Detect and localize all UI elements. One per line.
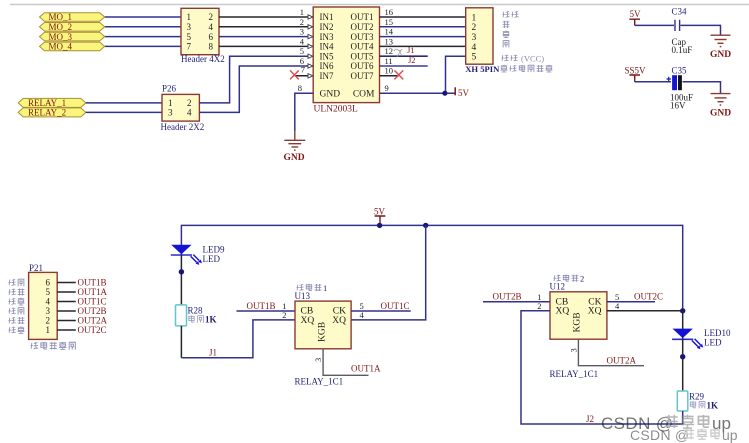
svg-text:LED10: LED10: [704, 328, 731, 338]
svg-text:RELAY_1: RELAY_1: [28, 98, 66, 108]
svg-text:XH 5PIN: XH 5PIN: [465, 64, 500, 74]
svg-text:4: 4: [300, 36, 305, 46]
port RELAY_2: [18, 108, 86, 118]
svg-text:R29: R29: [689, 391, 705, 401]
wire U12 pin4 to LED10: [607, 310, 683, 312]
svg-text:9: 9: [385, 83, 389, 93]
wire MO_1 to header P? pin1: [105, 16, 181, 18]
P21 pin stubs: [57, 283, 76, 331]
wire header pin4 to IN2: [219, 26, 313, 28]
svg-text:1: 1: [168, 98, 173, 108]
wire OUT7 stub: [380, 75, 399, 77]
svg-text:2: 2: [537, 301, 541, 311]
svg-text:12: 12: [385, 46, 394, 56]
svg-text:2: 2: [300, 17, 304, 27]
svg-text:ULN2003L: ULN2003L: [314, 105, 359, 115]
svg-text:4: 4: [472, 43, 477, 53]
svg-text:16V: 16V: [670, 101, 686, 111]
svg-text:up: up: [722, 427, 738, 443]
wire riser XH pin5 to COM net: [446, 56, 466, 93]
svg-text:XQ: XQ: [301, 316, 315, 326]
wire RELAY_1 to P26 pin1: [86, 102, 162, 104]
svg-text:1K: 1K: [205, 315, 217, 325]
wire header pin2 to IN1: [219, 16, 313, 18]
ground GND (C34): [710, 35, 731, 60]
svg-text:LED: LED: [704, 338, 722, 348]
wire OUT4 to XH pin4: [380, 45, 466, 47]
wire P26 pin2 up to IN5: [199, 56, 313, 103]
connector XH 5PIN body: [466, 8, 493, 64]
svg-text:OUT5: OUT5: [351, 51, 374, 61]
junction COM/5V: [442, 91, 447, 96]
wire MO_4: [105, 45, 181, 47]
svg-text:10: 10: [385, 66, 394, 76]
annotation pink hanzi: [503, 21, 510, 28]
svg-text:5V: 5V: [630, 9, 642, 19]
wire OUT5 stub J1: [380, 55, 428, 57]
no-ERC cross on IN7: [290, 70, 299, 79]
svg-text:OUT1C: OUT1C: [381, 301, 410, 311]
watermark CSDN line2: [630, 427, 738, 443]
wire GND pin8: [295, 93, 313, 131]
resistor R28: [176, 305, 204, 326]
U12 pin3 stub: [578, 339, 644, 366]
svg-text:6: 6: [209, 32, 214, 42]
svg-text:MO_3: MO_3: [49, 32, 73, 42]
svg-text:OUT1B: OUT1B: [78, 278, 107, 288]
svg-text:OUT2C: OUT2C: [634, 292, 663, 302]
svg-text:IN3: IN3: [320, 32, 334, 42]
port RELAY_1: [18, 98, 86, 108]
svg-text:GND: GND: [710, 108, 731, 118]
svg-text:4: 4: [209, 22, 214, 32]
svg-text:KGB: KGB: [573, 312, 583, 332]
wire OUT6 stub J2: [380, 65, 428, 67]
svg-text:IN4: IN4: [320, 42, 334, 52]
svg-text:J1: J1: [407, 45, 415, 55]
junction below LED10: [680, 354, 685, 359]
svg-text:7: 7: [187, 42, 192, 52]
svg-text:OUT2C: OUT2C: [78, 325, 107, 335]
IC U? ULN2003L body: [313, 7, 379, 103]
LED LED9: [171, 245, 202, 265]
connector P26 body: [162, 94, 199, 121]
svg-text:7: 7: [301, 65, 305, 75]
svg-text:LED9: LED9: [203, 244, 225, 254]
wire RELAY_2 to P26 pin3: [86, 111, 162, 113]
svg-text:3: 3: [472, 33, 477, 43]
power bar SS5V: [625, 65, 647, 81]
svg-text:OUT2A: OUT2A: [78, 316, 108, 326]
svg-text:IN5: IN5: [320, 51, 334, 61]
annotation yellow hanzi: [502, 30, 509, 37]
svg-text:XQ: XQ: [332, 316, 346, 326]
wire OUT1 to XH pin1: [380, 16, 466, 18]
svg-text:OUT2: OUT2: [351, 22, 374, 32]
svg-text:4: 4: [46, 297, 51, 307]
R28 value hanzi 1K: [189, 315, 217, 325]
svg-text:OUT2B: OUT2B: [78, 306, 107, 316]
U13 pin3 stub: [323, 349, 368, 376]
wire OUT2 to XH pin2: [380, 26, 466, 28]
svg-text:1: 1: [46, 325, 51, 335]
wire U12 pin5 OUT2C: [607, 301, 655, 303]
resistor R29: [677, 391, 704, 411]
svg-text:3: 3: [187, 22, 192, 32]
wire P26 pin4 up to IN6: [199, 66, 313, 112]
svg-text:2: 2: [282, 310, 286, 320]
LED LED10: [672, 311, 703, 349]
svg-text:OUT1B: OUT1B: [247, 301, 276, 311]
svg-text:OUT1C: OUT1C: [78, 297, 107, 307]
svg-text:3: 3: [313, 358, 323, 362]
svg-text:1: 1: [323, 283, 327, 293]
junction U12 pin4: [680, 308, 685, 313]
svg-text:2: 2: [580, 274, 584, 284]
svg-text:MO_2: MO_2: [49, 22, 73, 32]
svg-text:2: 2: [472, 23, 477, 33]
svg-text:IN1: IN1: [320, 12, 334, 22]
svg-text:1: 1: [187, 12, 192, 22]
annotation red-wire (VCC): [501, 54, 544, 64]
wire MO_3: [105, 36, 181, 38]
wire OUT1B to U13 pin1: [237, 310, 296, 312]
svg-text:OUT1A: OUT1A: [351, 363, 381, 373]
svg-text:KGB: KGB: [318, 322, 328, 342]
svg-text:P21: P21: [29, 263, 43, 273]
svg-text:P26: P26: [162, 84, 177, 94]
wire COM to 5V: [380, 92, 455, 94]
no-ERC cross on OUT7: [394, 70, 403, 79]
junction 5V stem: [377, 223, 382, 228]
svg-text:1: 1: [300, 7, 304, 17]
svg-text:MO_4: MO_4: [49, 42, 73, 52]
svg-text:1: 1: [472, 13, 477, 23]
svg-text:2: 2: [209, 12, 214, 22]
svg-text:Header 4X2: Header 4X2: [181, 54, 225, 64]
power bar 5V (right of ULN): [455, 87, 469, 98]
port MO_1: [40, 12, 105, 22]
svg-text:RELAY_2: RELAY_2: [28, 108, 66, 118]
gray squiggle annotation: [394, 49, 402, 57]
capacitor C35 polarized: [667, 65, 694, 110]
svg-text:6: 6: [46, 278, 51, 288]
svg-text:5: 5: [46, 287, 51, 297]
svg-text:2: 2: [187, 98, 192, 108]
svg-text:COM: COM: [353, 90, 375, 100]
svg-text:OUT4: OUT4: [351, 42, 374, 52]
power bar 5V (rail): [374, 206, 386, 225]
svg-text:8: 8: [298, 83, 302, 93]
annotation blue-wire hanzi: [502, 11, 518, 17]
port MO_4: [40, 42, 105, 52]
junction U13 riser: [423, 223, 428, 228]
svg-text:GND: GND: [710, 50, 731, 60]
svg-text:4: 4: [187, 108, 192, 118]
svg-text:J2: J2: [408, 55, 416, 65]
svg-text:11: 11: [385, 56, 393, 66]
svg-text:J1: J1: [209, 347, 217, 357]
wire MO_2: [105, 26, 181, 28]
header 4X2 body: [181, 8, 219, 54]
svg-text:IN6: IN6: [320, 61, 334, 71]
ULN2003L pin numbers left: [298, 7, 305, 93]
watermark CSDN line1: [601, 414, 731, 433]
relay2 hanzi designator: [553, 274, 584, 284]
relay1 hanzi designator: [296, 283, 327, 293]
wire R29 to J2 run to U12 pin2: [521, 311, 683, 424]
R29 value hanzi 1K: [690, 400, 718, 410]
svg-text:5: 5: [300, 46, 304, 56]
svg-text:IN2: IN2: [320, 22, 334, 32]
wire U13 pin4 riser: [351, 225, 426, 320]
wire R28 to J1 run: [180, 326, 182, 358]
svg-text:J2: J2: [586, 414, 594, 424]
svg-text:3: 3: [568, 348, 578, 352]
svg-text:(VCC): (VCC): [521, 54, 544, 64]
connector P21 body: [29, 272, 58, 339]
svg-text:RELAY_1C1: RELAY_1C1: [550, 369, 599, 379]
svg-text:OUT2B: OUT2B: [493, 292, 522, 302]
svg-text:LED: LED: [203, 254, 221, 264]
svg-text:CSDN @: CSDN @: [630, 427, 690, 443]
ground GND (C35): [710, 94, 731, 119]
svg-text:OUT3: OUT3: [351, 32, 374, 42]
ULN2003L input arrow marks: [308, 15, 313, 78]
svg-text:Header 2X2: Header 2X2: [161, 122, 205, 132]
svg-text:OUT1A: OUT1A: [78, 287, 108, 297]
svg-text:IN7: IN7: [320, 71, 334, 81]
ULN2003L pin numbers right: [385, 7, 394, 93]
wire OUT3 to XH pin3: [380, 36, 466, 38]
annotation NC/coil hanzi rows: [8, 279, 24, 333]
capacitor C34: [672, 7, 693, 55]
svg-text:SS5V: SS5V: [625, 65, 647, 75]
svg-text:U12: U12: [550, 282, 566, 292]
svg-text:5: 5: [187, 32, 192, 42]
svg-text:13: 13: [385, 36, 394, 46]
annotation relay-output hanzi: [31, 342, 76, 350]
wire header pin6 to IN3: [219, 36, 313, 38]
ground GND (under ULN): [284, 131, 306, 163]
junction below LED9: [179, 269, 184, 274]
wire 5V rail: [181, 225, 682, 310]
relay U13 body: [295, 301, 351, 349]
sheet border top line: [10, 4, 749, 6]
svg-text:RELAY_1C1: RELAY_1C1: [295, 376, 344, 386]
port MO_2: [40, 22, 105, 32]
svg-text:MO_1: MO_1: [49, 12, 73, 22]
power bar 5V (top right C34): [629, 9, 641, 25]
svg-text:XQ: XQ: [588, 307, 602, 317]
wire J1 to U13 pin2: [181, 320, 295, 358]
svg-text:15: 15: [385, 17, 394, 27]
annotation orange hanzi: [503, 41, 509, 48]
wire LED10 to R29: [682, 339, 684, 391]
svg-text:C35: C35: [672, 65, 688, 75]
svg-text:R28: R28: [188, 306, 204, 316]
svg-text:OUT1: OUT1: [351, 12, 374, 22]
svg-text:3: 3: [168, 108, 173, 118]
wire 5V to C34 to GND: [635, 25, 721, 35]
wire SS5V to C35 to GND: [635, 82, 721, 94]
svg-text:3: 3: [46, 306, 51, 316]
svg-text:1K: 1K: [707, 400, 719, 410]
svg-text:3: 3: [300, 27, 304, 37]
svg-text:GND: GND: [284, 153, 305, 163]
svg-text:XQ: XQ: [556, 307, 570, 317]
annotation stepper-motor-output hanzi: [500, 65, 552, 72]
svg-text:GND: GND: [320, 90, 341, 100]
svg-text:OUT6: OUT6: [351, 61, 374, 71]
svg-text:C34: C34: [672, 7, 688, 17]
relay U12 body: [550, 292, 607, 339]
wire LED9 to R28: [180, 255, 182, 305]
svg-text:16: 16: [385, 7, 394, 17]
port MO_3: [40, 32, 105, 42]
svg-text:5: 5: [472, 53, 477, 63]
wire IN7 stub: [294, 75, 313, 77]
svg-text:0.1uF: 0.1uF: [672, 45, 693, 55]
svg-text:5V: 5V: [374, 206, 386, 216]
svg-text:5V: 5V: [458, 88, 470, 98]
wire OUT2B to U12 pin1: [483, 301, 550, 303]
svg-text:OUT2A: OUT2A: [607, 356, 637, 366]
wire header pin8 to IN4: [219, 45, 313, 47]
svg-text:OUT7: OUT7: [351, 71, 374, 81]
svg-text:U13: U13: [295, 291, 311, 301]
svg-text:14: 14: [385, 27, 394, 37]
svg-text:8: 8: [209, 42, 214, 52]
svg-text:2: 2: [46, 316, 51, 326]
wire U13 pin5 OUT1C: [351, 310, 411, 312]
